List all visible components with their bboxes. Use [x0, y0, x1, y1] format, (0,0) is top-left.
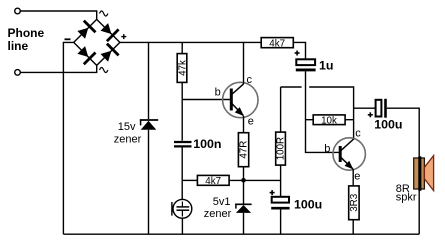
resistor 47R	[238, 133, 249, 167]
svg-text:4k7: 4k7	[269, 38, 285, 49]
resistor 47k	[177, 54, 188, 83]
capacitor 1u	[296, 59, 316, 70]
wire: mic to ground rail	[181, 218, 183, 234]
bridge diode top-left	[77, 21, 95, 39]
wire: emitter Q2 to 3R3	[352, 169, 354, 186]
wire: collector Q1 to rail	[243, 42, 245, 84]
label 5v1 zener	[204, 196, 232, 220]
resistor 4k7 top	[261, 38, 293, 50]
resistor 10k	[306, 115, 354, 127]
svg-text:c: c	[355, 128, 361, 140]
resistor 4k7 mid	[197, 175, 229, 187]
wire: 47k down through base node to 100n	[181, 82, 183, 140]
plus sign 1u	[295, 51, 300, 56]
microphone MIC1	[172, 199, 192, 218]
svg-text:100n: 100n	[193, 137, 221, 151]
svg-text:47R: 47R	[239, 141, 250, 159]
svg-text:b: b	[324, 143, 330, 155]
svg-text:15v: 15v	[118, 121, 136, 133]
zener diode 5v1	[235, 204, 251, 234]
bridge AC bottom squiggle	[100, 68, 108, 73]
capacitor 100n	[174, 142, 192, 146]
wire: 100u right to speaker	[387, 108, 419, 157]
svg-text:spkr: spkr	[396, 192, 417, 204]
phone line terminal bottom	[15, 70, 21, 76]
capacitor 100u right	[376, 99, 386, 118]
plus sign 100u left	[270, 190, 275, 195]
wire: 4k7 to 1u cap	[293, 42, 305, 59]
wire: 100n to mic node	[181, 148, 183, 200]
plus sign 100u right	[368, 112, 373, 117]
ground rail	[63, 233, 419, 235]
transistor Q1	[223, 82, 258, 117]
wire: 3R3 to ground rail	[352, 220, 354, 235]
wire: 100R top lead	[280, 87, 282, 132]
wire: 100R top node crossover	[281, 86, 302, 88]
top positive rail	[120, 41, 261, 43]
bridge diode top-right	[101, 23, 119, 41]
svg-text:line: line	[8, 39, 29, 53]
svg-text:47k: 47k	[177, 60, 188, 76]
speaker 8R	[414, 156, 434, 235]
svg-text:4k7: 4k7	[205, 176, 221, 187]
wire: emitter Q1 to 47R	[243, 116, 245, 133]
resistor 100R	[276, 132, 287, 165]
svg-text:zener: zener	[204, 208, 232, 220]
transistor Q2	[333, 138, 365, 170]
wire: mic node to 4k7 mid	[182, 179, 197, 181]
phone line terminal top	[15, 8, 21, 14]
capacitor 100u left	[271, 197, 289, 234]
junction dot node A	[241, 178, 246, 183]
wire: rail to 47k	[181, 42, 183, 53]
resistor 3R3	[349, 186, 360, 220]
svg-text:c: c	[247, 74, 253, 86]
wire: collector Q2 to 100u right	[354, 107, 376, 109]
wire: 47R to node A	[243, 167, 245, 204]
svg-text:5v1: 5v1	[213, 196, 231, 208]
svg-text:1u: 1u	[319, 59, 333, 73]
wire: base of Q1	[182, 99, 230, 101]
svg-text:e: e	[248, 116, 254, 128]
svg-text:b: b	[215, 87, 221, 99]
svg-text:100u: 100u	[374, 117, 402, 131]
wire node A horizontal	[229, 179, 281, 181]
wire: 1u down to base of Q2	[306, 71, 339, 152]
bridge plus sign	[121, 34, 126, 39]
bridge rectifier BR1 diamond	[74, 19, 120, 65]
wire: bottom terminal to bridge AC bottom	[20, 65, 96, 72]
wire: crossover to collector Q2	[309, 87, 353, 139]
bridge diode bottom-left	[77, 46, 95, 64]
wire: top terminal to bridge AC top	[20, 11, 96, 19]
bridge AC top squiggle	[100, 11, 108, 16]
bridge diode bottom-right	[101, 44, 119, 62]
wire: 100R bottom to 100u	[280, 165, 282, 197]
svg-text:e: e	[354, 170, 360, 182]
svg-text:100R: 100R	[276, 137, 287, 160]
label 15v zener	[114, 121, 142, 145]
zener diode 15v	[140, 42, 158, 234]
wire: bridge minus to negative rail	[63, 42, 73, 234]
label 8R spkr	[396, 183, 417, 203]
label Phone line	[8, 26, 45, 53]
svg-text:3R3: 3R3	[349, 193, 360, 212]
svg-text:zener: zener	[114, 133, 142, 145]
svg-text:Phone: Phone	[8, 26, 45, 40]
bridge minus sign	[65, 38, 71, 40]
svg-text:10k: 10k	[321, 115, 337, 126]
svg-text:100u: 100u	[294, 197, 322, 211]
